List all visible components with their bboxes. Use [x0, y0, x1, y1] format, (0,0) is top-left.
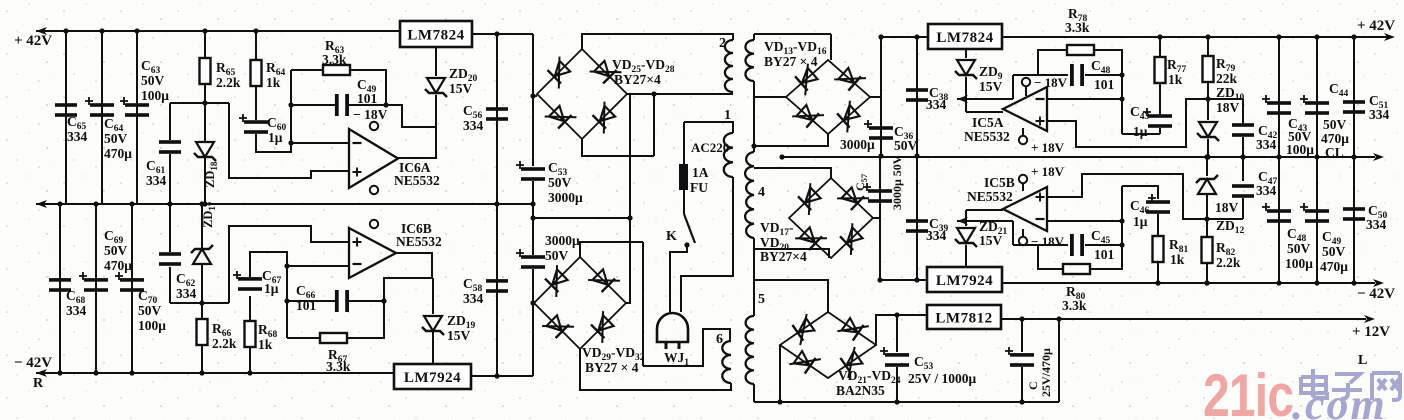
- wire ZD18 to mid rail: [204, 158, 206, 204]
- svg-text:+ 18V: + 18V: [1031, 140, 1065, 155]
- svg-text:3000μ: 3000μ: [548, 190, 583, 205]
- wire bridge bottom AC return: [754, 134, 828, 146]
- wire C49 left lead: [291, 104, 335, 106]
- wire IC5A output: [966, 111, 1003, 113]
- wire R67 left lead: [287, 337, 320, 339]
- wire C53b bottom lead: [532, 269, 534, 376]
- junction C44 top: [1314, 34, 1319, 39]
- svg-text:IC5A: IC5A: [972, 115, 1004, 130]
- resistor R68: [245, 321, 256, 347]
- wire C45 left lead: [1038, 244, 1068, 246]
- capacitor C63: [120, 97, 149, 117]
- zener diode ZD21: [955, 228, 977, 247]
- arrow -42V right: [1373, 279, 1384, 287]
- svg-text:1μ: 1μ: [268, 130, 283, 145]
- junction winding column: [751, 143, 756, 148]
- arrow mid rail right: [1373, 153, 1384, 161]
- wire ZD21 top lead: [965, 210, 967, 226]
- wire R79 to ZD10: [1207, 82, 1209, 120]
- wire winding2 bottom: [654, 93, 733, 95]
- svg-text:101: 101: [1094, 77, 1115, 92]
- zener diode ZD9: [955, 60, 977, 79]
- wire ZD20 top lead: [435, 47, 437, 76]
- resistor R81: [1153, 236, 1164, 262]
- wire LM7824 input right section: [881, 36, 928, 38]
- resistor R66: [197, 319, 208, 345]
- svg-text:50V: 50V: [141, 73, 165, 88]
- svg-text:50V: 50V: [104, 131, 128, 146]
- switch K: [684, 214, 695, 243]
- mid rail right section: [782, 156, 1375, 158]
- regulator LM7824: [400, 21, 472, 47]
- op-amp IC6A: [349, 129, 398, 188]
- junction C45 right: [1119, 242, 1124, 247]
- wire mid rail left section: [36, 203, 533, 205]
- capacitor C43 output filter: [1262, 95, 1291, 115]
- wire to bridge left: [533, 95, 537, 97]
- wire R80 right lead: [1090, 245, 1122, 269]
- capacitor C61: [159, 140, 181, 154]
- wire C56 column: [496, 34, 498, 204]
- wire stub bridge VD13-16 top: [830, 34, 832, 60]
- wire fuse to switch: [683, 190, 685, 214]
- wire C48 left lead: [1038, 74, 1068, 76]
- wire to IC6A + input: [229, 103, 349, 178]
- capacitor C51: [1343, 100, 1365, 114]
- terminal IC5A V+ supply: [1019, 136, 1027, 144]
- svg-text:NE5532: NE5532: [394, 173, 440, 188]
- wire R68 to C67: [249, 296, 251, 321]
- arrow reference output left: [957, 95, 968, 103]
- junction C36 mid: [878, 153, 883, 158]
- svg-text:50V: 50V: [545, 248, 569, 263]
- wire C67 to inverting node: [250, 252, 287, 277]
- junction R79 top: [1205, 34, 1210, 39]
- capacitor C39: [906, 219, 928, 233]
- resistor R80: [1063, 264, 1090, 274]
- wire C60 to inverting node: [256, 134, 291, 152]
- svg-text:2.2k: 2.2k: [212, 336, 237, 351]
- svg-text:3000μ: 3000μ: [545, 233, 580, 248]
- node feedback right IC6B: [381, 298, 386, 303]
- svg-text:3.3k: 3.3k: [322, 52, 347, 67]
- wire bottom rail +12V section: [754, 401, 1059, 403]
- wire R78 left lead: [1038, 50, 1067, 75]
- arrow +12V: [1364, 315, 1375, 323]
- terminal IC5B V+ supply: [1019, 175, 1027, 183]
- wire to C42 top: [1208, 98, 1243, 100]
- svg-text:1μ: 1μ: [264, 281, 279, 296]
- wire R65 top lead: [204, 31, 206, 58]
- wire IC5A non-inverting input loop: [1047, 99, 1208, 147]
- svg-text:18V: 18V: [1215, 200, 1239, 215]
- junction C51 top: [1351, 34, 1356, 39]
- svg-text:LM7824: LM7824: [936, 30, 993, 46]
- wire bridge2 top AC to riser: [580, 242, 643, 257]
- node R65 top: [202, 28, 207, 33]
- svg-text:+ 42V: + 42V: [14, 33, 52, 49]
- svg-text:100μ: 100μ: [138, 318, 166, 333]
- svg-text:− 42V: − 42V: [1357, 286, 1395, 302]
- arrow mid rail left: [36, 200, 47, 208]
- svg-text:1k: 1k: [1168, 72, 1183, 87]
- wire R81 bottom lead: [1157, 262, 1159, 283]
- svg-text:470μ: 470μ: [104, 258, 132, 273]
- junction C54 top: [1019, 316, 1024, 321]
- wire C45 left link: [1013, 244, 1038, 246]
- svg-text:6: 6: [716, 332, 723, 347]
- capacitor C67: [233, 271, 262, 291]
- zener diode ZD17: [191, 245, 213, 264]
- svg-text:+ 42V: + 42V: [1357, 18, 1395, 34]
- capacitor C48: [1070, 64, 1084, 86]
- regulator LM7824 right: [928, 24, 1002, 49]
- wire C70 column: [131, 204, 133, 373]
- svg-text:1μ: 1μ: [1133, 214, 1148, 229]
- svg-text:101: 101: [296, 298, 317, 313]
- junction y218 left: [530, 215, 535, 220]
- wire bridge2 bottom to winding 6 bottom: [580, 349, 731, 390]
- wire R82 bottom lead: [1206, 263, 1208, 283]
- capacitor C44: [1300, 95, 1329, 115]
- arrow -42V rail: [36, 369, 47, 377]
- svg-text:1μ: 1μ: [1133, 124, 1148, 139]
- wire C48 right lead: [1085, 74, 1122, 76]
- capacitor C37 3000u: [863, 183, 892, 203]
- junction bridge3 left bottom rail: [777, 399, 782, 404]
- capacitor C42: [1232, 123, 1254, 137]
- svg-text:NE5532: NE5532: [964, 129, 1010, 144]
- svg-text:AC220: AC220: [691, 140, 729, 155]
- wire node to C62: [170, 302, 229, 304]
- svg-text:334: 334: [1366, 217, 1387, 232]
- wire rail right riser: [1058, 319, 1060, 402]
- svg-text:− 18V: − 18V: [1034, 75, 1068, 90]
- junction C53b top: [894, 312, 899, 317]
- svg-text:K: K: [666, 229, 677, 244]
- svg-text:+ 18V: + 18V: [1031, 164, 1065, 179]
- capacitor C36: [864, 120, 893, 140]
- wire feedback node riser: [1012, 75, 1014, 99]
- svg-text:25V / 1000μ: 25V / 1000μ: [908, 371, 977, 386]
- wire C62 top lead: [169, 204, 171, 252]
- capacitor C64: [85, 97, 114, 117]
- junction C38 mid: [914, 153, 919, 158]
- capacitor C38: [906, 88, 928, 102]
- wire IC5B inverting input: [1047, 220, 1122, 222]
- junction C49 bottom: [1314, 280, 1319, 285]
- terminal IC6A V- supply: [370, 122, 378, 130]
- wire bridge2 right corner link: [626, 302, 631, 304]
- capacitor C49: [335, 94, 349, 116]
- resistor R82: [1202, 237, 1213, 263]
- wire C48 left link: [1013, 74, 1038, 76]
- wire C58 column: [496, 204, 498, 376]
- wire C65 column: [65, 31, 67, 204]
- svg-text:1k: 1k: [266, 75, 281, 90]
- wire C61 bottom lead: [169, 154, 171, 204]
- junction C48 right: [1119, 72, 1124, 77]
- svg-text:50V: 50V: [1287, 241, 1311, 256]
- plug WJ1: [657, 313, 688, 342]
- svg-text:101: 101: [1094, 247, 1115, 262]
- wire C54 bottom lead: [1021, 367, 1023, 402]
- wire C68 column: [59, 204, 61, 373]
- wire LM7824 output to rectifier: [472, 33, 533, 35]
- capacitor C47: [1232, 184, 1254, 198]
- svg-text:18V: 18V: [1216, 100, 1240, 115]
- svg-text:50V: 50V: [138, 303, 162, 318]
- junction R77 top: [1157, 34, 1162, 39]
- svg-text:1A: 1A: [692, 165, 709, 180]
- wire C42 top lead: [1242, 99, 1244, 124]
- wire rectifier DC+ down: [532, 34, 534, 96]
- wire AC riser x654: [653, 95, 655, 156]
- wire IC6B output feedback loop: [384, 253, 432, 301]
- svg-text:100μ: 100μ: [141, 88, 169, 103]
- node R64 top: [253, 28, 258, 33]
- junction input node: [878, 34, 883, 39]
- wire winding4 to bridge2R top: [754, 168, 831, 178]
- wire R63 right lead: [350, 70, 386, 105]
- junction R81 bottom: [1155, 280, 1160, 285]
- capacitor 3000u 50V lower: [516, 249, 545, 269]
- wire R67 right lead: [347, 301, 384, 338]
- wire top bus left section: [36, 30, 400, 32]
- wire R79 top lead: [1207, 37, 1209, 56]
- wire top bus right section: [1002, 36, 1387, 38]
- svg-text:3.3k: 3.3k: [1062, 298, 1087, 313]
- wire C48 output column: [1278, 157, 1280, 283]
- wire C64 column: [101, 31, 103, 204]
- arrow +42V rail: [36, 27, 47, 35]
- wire winding1 top to fuse line: [684, 122, 733, 133]
- wire ZD19 bottom lead: [432, 332, 434, 364]
- svg-text:50V: 50V: [104, 243, 128, 258]
- wire winding5 bottom: [753, 385, 755, 402]
- svg-text:334: 334: [926, 97, 947, 112]
- svg-text:− 18V: − 18V: [1031, 234, 1065, 249]
- capacitor C54 25V/470u: [1005, 347, 1034, 367]
- wire C54 top lead: [1021, 319, 1023, 352]
- svg-text:2: 2: [719, 36, 726, 51]
- wire R77 top lead: [1159, 37, 1161, 57]
- capacitor C53 25V/1000u: [880, 347, 909, 367]
- wire R64 to C60: [255, 86, 257, 120]
- svg-text:470μ: 470μ: [1320, 259, 1348, 274]
- bridge rectifier VD29-VD32: [534, 257, 626, 349]
- regulator LM7924: [394, 364, 471, 389]
- svg-text:50V: 50V: [1322, 244, 1346, 259]
- svg-text:3000μ 50V: 3000μ 50V: [890, 155, 904, 210]
- wire AC link right x630: [629, 94, 631, 303]
- svg-text:1k: 1k: [258, 337, 273, 352]
- wire C43 bottom link: [1122, 133, 1160, 135]
- svg-text:334: 334: [176, 286, 197, 301]
- wire IC6A output feedback loop: [386, 105, 436, 158]
- wire bridge right corner stub: [627, 93, 654, 95]
- svg-text:IC5B: IC5B: [984, 175, 1015, 190]
- svg-text:4: 4: [758, 185, 765, 200]
- zener diode ZD19: [422, 316, 444, 335]
- svg-text:C: C: [1026, 381, 1040, 390]
- svg-text:1k: 1k: [1170, 252, 1185, 267]
- junction bridge VD25-28 left corner: [530, 93, 535, 98]
- svg-text:BY27×4: BY27×4: [760, 249, 807, 264]
- wire bridge right corner to C36 column: [870, 96, 881, 98]
- wire bottom bus left section: [36, 372, 394, 374]
- terminal IC6B V+ supply: [370, 220, 378, 228]
- resistor R63: [323, 65, 350, 75]
- svg-text:LM7824: LM7824: [407, 28, 464, 44]
- winding 6: [722, 341, 731, 383]
- winding 3 (for VD13-16): [745, 40, 754, 81]
- svg-text:R: R: [33, 376, 44, 391]
- svg-text:50V: 50V: [1323, 117, 1347, 132]
- svg-text:15V: 15V: [447, 328, 471, 343]
- wire R78 right lead: [1094, 50, 1122, 75]
- wire to winding 6 top: [643, 329, 730, 366]
- watermark CJK zi: [1332, 374, 1362, 399]
- svg-text:+ 12V: + 12V: [1352, 324, 1390, 340]
- wire to C47 bottom: [1207, 218, 1243, 220]
- wire IC6B inverting input: [287, 265, 349, 267]
- wire C47 top lead: [1242, 157, 1244, 181]
- wire winding4 bottom to bridge bottom: [754, 249, 829, 258]
- wire C66 right lead: [349, 300, 384, 302]
- op-amp IC6B: [349, 228, 396, 278]
- capacitor C65: [55, 103, 77, 117]
- junction C53 mid rail: [530, 201, 535, 206]
- svg-text:22k: 22k: [1216, 71, 1238, 86]
- wire LM7924 input right section: [880, 279, 927, 281]
- node R66 bottom: [199, 370, 204, 375]
- wire C43b column: [1278, 37, 1280, 157]
- wire IC5B non-inverting input loop: [1047, 174, 1205, 219]
- wire C47 bottom lead: [1242, 198, 1244, 219]
- svg-text:50V: 50V: [894, 138, 918, 153]
- winding 5: [746, 316, 754, 384]
- svg-text:15V: 15V: [979, 233, 1003, 248]
- wire R68 bottom lead: [249, 347, 251, 373]
- capacitor C56: [486, 107, 508, 121]
- wire C50 column: [1353, 157, 1355, 283]
- capacitor C45: [1070, 234, 1084, 256]
- wire C49 column: [1316, 157, 1318, 283]
- bridge rectifier VD13-VD16: [786, 60, 870, 134]
- zener diode ZD10: [1197, 122, 1219, 141]
- wire bridge3 right corner to LM7812: [876, 315, 927, 345]
- wire C53b top lead: [532, 204, 534, 255]
- winding 2 (secondary): [725, 40, 733, 92]
- op-amp IC5A: [1003, 87, 1047, 131]
- wire C69 column: [95, 204, 97, 373]
- node feedback left IC6B: [286, 261, 288, 338]
- wire -42V bus right: [1002, 282, 1375, 284]
- svg-text:334: 334: [146, 173, 167, 188]
- arrow +42V right: [1384, 33, 1395, 41]
- svg-text:15V: 15V: [979, 79, 1003, 94]
- wire ZD9 bottom lead: [965, 77, 967, 112]
- svg-text:25V/470μ: 25V/470μ: [1039, 348, 1053, 397]
- wire inverting node column IC5B: [1121, 186, 1123, 245]
- svg-text:334: 334: [67, 129, 88, 144]
- wire AC riser x643: [642, 242, 644, 366]
- wire mid link y218: [533, 217, 630, 219]
- zener diode ZD20: [425, 78, 447, 97]
- svg-text:− 42V: − 42V: [14, 355, 52, 371]
- svg-text:BA2N35: BA2N35: [836, 383, 885, 398]
- wire winding3 to bridge left: [754, 96, 786, 98]
- junction reference node right bottom: [1204, 216, 1209, 221]
- svg-text:100μ: 100μ: [1286, 142, 1314, 157]
- winding 4: [745, 152, 754, 238]
- wire ZD9 top lead: [965, 49, 967, 58]
- wire R65 to ZD18: [204, 84, 206, 142]
- wire C39 C37 column left: [879, 157, 881, 280]
- svg-text:LM7924: LM7924: [936, 273, 993, 289]
- capacitor C53: [516, 161, 545, 181]
- svg-text:NE5532: NE5532: [967, 189, 1013, 204]
- wire R80 left lead: [1038, 245, 1063, 269]
- arrow reference output left bottom: [957, 217, 968, 225]
- svg-text:470μ: 470μ: [104, 146, 132, 161]
- svg-text:BY27×4: BY27×4: [614, 72, 661, 87]
- wire C42 bottom lead: [1242, 137, 1244, 157]
- wire C46 top link: [1122, 186, 1158, 199]
- svg-text:334: 334: [1256, 137, 1277, 152]
- junction C50 bottom: [1351, 280, 1356, 285]
- wire ZD21 into box: [965, 245, 967, 267]
- wire bridge bottom AC: [582, 139, 654, 156]
- wire ZD21 bottom lead: [965, 245, 967, 267]
- zener diode ZD12: [1196, 175, 1218, 194]
- wire C39 column: [916, 157, 918, 280]
- capacitor C60: [239, 114, 268, 134]
- wire C61 top lead: [169, 103, 171, 140]
- svg-text:470μ: 470μ: [1321, 131, 1349, 146]
- capacitor C70: [115, 272, 144, 292]
- regulator LM7812: [927, 305, 1001, 329]
- wire bridge right corner to C39 column: [873, 217, 880, 219]
- svg-text:334: 334: [66, 303, 87, 318]
- svg-text:3.3k: 3.3k: [326, 359, 351, 374]
- capacitor C43: [1143, 108, 1172, 128]
- resistor R65: [200, 58, 211, 84]
- bridge rectifier VD17-VD20: [789, 178, 873, 258]
- wire reference node y99: [957, 98, 1013, 100]
- capacitor C50: [1343, 207, 1365, 221]
- capacitor C58: [486, 279, 508, 293]
- junction reference node right top: [1205, 96, 1210, 101]
- winding 1 (primary): [724, 133, 733, 177]
- wire R77 to C43: [1159, 83, 1161, 115]
- wire C66 left lead: [287, 300, 335, 302]
- wire bridge3 left corner down: [779, 345, 781, 402]
- wire +12V output: [1001, 318, 1366, 320]
- resistor R64: [251, 60, 262, 86]
- svg-text:21ic: 21ic: [1203, 362, 1293, 420]
- junction mid rail left end: [779, 154, 784, 159]
- capacitor C46: [1146, 194, 1170, 214]
- wire R66 bottom lead: [201, 345, 203, 373]
- wire winding1 bottom to plug: [681, 177, 733, 312]
- junction y218 right: [627, 215, 632, 220]
- capacitor C49: [1300, 203, 1329, 223]
- svg-text:334: 334: [1369, 107, 1390, 122]
- wire C43 bottom lead: [1159, 128, 1161, 134]
- svg-text:334: 334: [463, 291, 484, 306]
